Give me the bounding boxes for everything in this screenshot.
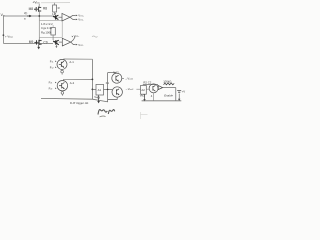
svg-text:M8: M8 bbox=[29, 7, 34, 11]
svg-text:M9: M9 bbox=[29, 40, 34, 44]
svg-text:100kΩ: 100kΩ bbox=[163, 80, 171, 84]
svg-text:C9: C9 bbox=[43, 40, 47, 44]
svg-text:1,8: 1,8 bbox=[52, 12, 57, 16]
svg-text:R: R bbox=[58, 6, 60, 10]
svg-text:A-2: A-2 bbox=[70, 81, 75, 85]
svg-text:Enable: Enable bbox=[164, 94, 173, 98]
svg-text:R8: R8 bbox=[43, 6, 47, 10]
svg-text:A-1: A-1 bbox=[69, 60, 74, 64]
svg-text:A2: A2 bbox=[141, 88, 145, 92]
svg-text:NA2: NA2 bbox=[113, 71, 119, 75]
svg-text:i(t): i(t) bbox=[24, 11, 27, 15]
svg-text:R2 C2: R2 C2 bbox=[143, 80, 151, 84]
svg-text:D-f/f trigger ckt: D-f/f trigger ckt bbox=[70, 101, 89, 105]
svg-text:b1: b1 bbox=[106, 81, 110, 85]
svg-text:A1: A1 bbox=[98, 88, 102, 92]
svg-text:Rg 100k: Rg 100k bbox=[41, 30, 52, 34]
svg-text:+V: +V bbox=[182, 89, 186, 93]
